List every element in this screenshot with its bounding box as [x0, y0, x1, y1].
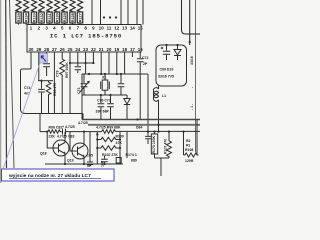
svg-text:R107 470: R107 470	[164, 139, 168, 154]
wire above pin 9	[91, 0, 93, 25]
svg-text:+ 4.7/25: + 4.7/25	[62, 125, 75, 129]
wire mid right vertical	[147, 74, 149, 131]
svg-text:28: 28	[44, 47, 49, 52]
resistor R108 120R	[184, 120, 199, 158]
resistor row labels	[17, 12, 83, 22]
svg-text:22K: 22K	[49, 134, 56, 138]
svg-text:R98 470: R98 470	[53, 83, 57, 96]
wire above pin 15	[136, 0, 138, 25]
svg-text:24: 24	[75, 47, 80, 52]
svg-text:R96 C82: R96 C82	[49, 126, 63, 130]
vertical rail right of resistor bank	[119, 132, 121, 164]
diode D83	[124, 95, 130, 120]
wire pin17	[131, 52, 133, 57]
wire pin27	[53, 52, 55, 114]
wire Q19 base	[70, 132, 72, 151]
resistor R107 470	[167, 132, 172, 158]
svg-text:4.7/25 R99 68K: 4.7/25 R99 68K	[96, 126, 121, 130]
wire node under pin29	[38, 80, 53, 82]
svg-text:R139: R139	[17, 13, 21, 22]
wire top-right vertical to right edge	[182, 0, 186, 34]
wire osc left down	[81, 74, 83, 120]
oscillator mid rail	[82, 94, 127, 96]
capacitor on pin 24	[75, 52, 81, 73]
wire horizontal from IC to right edge	[186, 33, 201, 35]
svg-text:4.7/25: 4.7/25	[57, 134, 67, 138]
IC pin numbers top row 1-15	[30, 26, 143, 31]
svg-text:33/16 7V5: 33/16 7V5	[158, 75, 174, 79]
wire above pin 10	[100, 0, 102, 25]
svg-text:R100: R100	[116, 135, 124, 139]
svg-text:19: 19	[114, 47, 119, 52]
resistor R127	[77, 0, 82, 25]
resistor R97 on pin 26	[60, 52, 65, 114]
svg-text:120R: 120R	[185, 159, 194, 163]
wire Q19 collector up	[83, 132, 85, 143]
svg-text:R108: R108	[185, 148, 193, 152]
wire pin23	[85, 52, 87, 74]
right border line	[195, 0, 197, 152]
wire pin18	[124, 52, 126, 74]
svg-text:23: 23	[83, 47, 88, 52]
svg-text:689: 689	[131, 159, 137, 163]
resistor R131	[47, 0, 52, 25]
wire Q18 collector up	[64, 132, 66, 140]
capacitor C77	[107, 95, 114, 120]
capacitor C87	[145, 132, 151, 144]
wire above pin 14	[127, 0, 129, 25]
svg-text:C76 C77: C76 C77	[97, 99, 111, 103]
svg-text:D84: D84	[136, 126, 142, 130]
IC pin numbers bottom row 30-16	[29, 47, 144, 52]
wire right of IC top	[142, 0, 144, 25]
svg-text:R133: R133	[32, 13, 36, 22]
capacitor C69	[161, 45, 170, 60]
svg-text:C83: C83	[68, 134, 74, 138]
caption box	[2, 169, 115, 181]
resistor R129	[62, 0, 67, 25]
svg-text:R97 100K: R97 100K	[65, 62, 69, 78]
bottom wire	[45, 163, 123, 165]
inductor L1	[153, 86, 158, 131]
svg-text:30: 30	[29, 47, 34, 52]
svg-text:17: 17	[130, 47, 135, 52]
resistor R173 100K box	[151, 134, 157, 154]
svg-text:R130: R130	[55, 13, 59, 22]
svg-text:10: 10	[99, 26, 104, 31]
resistor R128	[70, 0, 75, 25]
svg-text:C85: C85	[87, 154, 93, 158]
crystal X1	[101, 74, 110, 95]
svg-text:C79: C79	[56, 71, 60, 77]
resistor R102 27K	[97, 146, 120, 150]
op IC U1 LC7185 body	[27, 25, 141, 53]
wire bus under pins 25-22	[70, 62, 93, 64]
wire pin30 left loop	[21, 52, 84, 114]
transistor Q19	[72, 143, 88, 159]
svg-text:IC 1 LC7 185-8750: IC 1 LC7 185-8750	[50, 33, 122, 40]
wire rail to bus	[82, 114, 84, 120]
capacitor C74	[38, 81, 45, 114]
svg-text:18: 18	[122, 47, 127, 52]
left scan edge	[0, 0, 2, 183]
svg-text:R131: R131	[48, 13, 52, 22]
wire vertical right to supply box	[189, 0, 191, 45]
svg-text:R2: R2	[186, 139, 191, 143]
wire bottom right join	[155, 158, 170, 176]
svg-text:R173 100K: R173 100K	[152, 135, 156, 153]
svg-text:25: 25	[68, 47, 73, 52]
svg-text:C69 D19: C69 D19	[160, 68, 174, 72]
svg-text:2P: 2P	[143, 62, 148, 66]
capacitor C85	[87, 132, 93, 167]
transistor Q18	[53, 140, 69, 156]
resistor R132	[39, 0, 44, 25]
svg-text:16: 16	[138, 47, 143, 52]
wire rail to R96 node	[39, 114, 41, 132]
blue annotation marker at pin 27	[40, 54, 48, 64]
svg-text:22: 22	[91, 47, 96, 52]
resistor R133	[31, 0, 36, 25]
resistor R100 47K	[97, 137, 120, 141]
wire pin21	[100, 52, 102, 74]
svg-text:R174 1: R174 1	[126, 153, 137, 157]
svg-text:29: 29	[36, 47, 41, 52]
zener D19	[174, 45, 181, 60]
wire pin29	[38, 52, 40, 81]
svg-text:14: 14	[130, 26, 135, 31]
svg-text:Q18: Q18	[40, 152, 47, 156]
capacitor C79 on pin 28	[43, 52, 50, 76]
wire Q19 emitter down	[83, 159, 85, 164]
capacitor C75	[118, 74, 125, 95]
supply loop box	[156, 45, 187, 86]
svg-text:13: 13	[122, 26, 127, 31]
wire Q18 emitter down	[64, 156, 66, 164]
svg-text:33P 68P: 33P 68P	[96, 110, 110, 114]
wire above pin 13	[120, 0, 122, 25]
svg-text:26: 26	[60, 47, 65, 52]
svg-text:R132: R132	[40, 13, 44, 22]
wire pin25	[69, 52, 71, 114]
resistor R139	[16, 0, 21, 25]
svg-text:R128: R128	[71, 13, 75, 22]
svg-text:R134: R134	[24, 12, 28, 22]
resistor R134	[23, 0, 28, 25]
svg-text:C73: C73	[77, 88, 81, 94]
svg-text:47K: 47K	[116, 141, 123, 145]
trimmer capacitor C73	[80, 74, 90, 95]
bottom labels	[40, 121, 194, 168]
svg-text:27: 27	[52, 47, 57, 52]
wire pin22	[92, 52, 94, 63]
bus wire 1	[82, 119, 200, 121]
capacitor C72 on pin16	[137, 52, 144, 120]
svg-text:9P: 9P	[87, 164, 92, 168]
left border line 2	[10, 0, 15, 168]
svg-text:20: 20	[107, 47, 112, 52]
resistor R98	[46, 81, 51, 114]
bus wire 3 with R96 C82 R99	[40, 129, 200, 135]
svg-text:15: 15	[138, 26, 143, 31]
oscillator top rail	[82, 73, 148, 75]
resistor R130	[54, 0, 59, 25]
svg-text:C74: C74	[24, 86, 30, 90]
svg-text:11: 11	[107, 26, 112, 31]
blue leader line	[3, 63, 40, 169]
svg-text:C72: C72	[142, 56, 148, 60]
svg-text:4.7/25: 4.7/25	[78, 121, 88, 125]
component box b	[116, 158, 121, 164]
left border line 1	[5, 0, 8, 168]
svg-text:- 1 -: - 1 -	[190, 103, 194, 110]
svg-text:33/16: 33/16	[190, 56, 194, 65]
svg-text:R1: R1	[186, 144, 191, 148]
svg-text:R102 27K: R102 27K	[102, 153, 118, 157]
svg-text:10P: 10P	[101, 160, 105, 167]
bus wire 2	[88, 124, 200, 126]
svg-text:R129: R129	[63, 13, 67, 22]
wire right mid	[126, 132, 128, 158]
svg-text:X1: X1	[102, 76, 106, 80]
vertical rail left of resistor bank	[96, 132, 98, 164]
svg-text:R127: R127	[78, 13, 82, 22]
svg-text:Q19: Q19	[67, 159, 74, 163]
wire pin19	[116, 52, 118, 74]
svg-text:21: 21	[99, 47, 104, 52]
wire Q18 base from node	[47, 132, 55, 148]
capacitor C86	[101, 156, 107, 165]
wire pin20	[108, 52, 110, 74]
svg-text:12: 12	[114, 26, 119, 31]
capacitor C76	[98, 95, 105, 120]
svg-text:L1: L1	[162, 94, 166, 98]
component labels below IC	[24, 56, 194, 114]
